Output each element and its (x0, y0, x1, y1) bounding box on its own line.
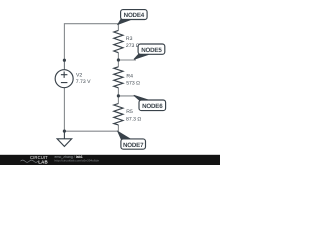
svg-text:LAB: LAB (38, 159, 48, 164)
footer logo wave (21, 160, 39, 162)
svg-text:NODE6: NODE6 (142, 103, 163, 110)
svg-text:7.73 V: 7.73 V (76, 79, 91, 85)
junction dot V2 top (63, 59, 66, 62)
wire bottom horizontal (64, 130, 118, 132)
svg-text:NODE7: NODE7 (123, 142, 144, 149)
svg-text:V2: V2 (76, 72, 82, 78)
node NODE7 flag (118, 132, 146, 150)
wire between R4 and R5 (117, 88, 119, 104)
resistor R3 (114, 30, 123, 52)
wire between R3 and R4 (117, 53, 119, 67)
junction dot node5 (117, 58, 120, 61)
resistor R5 (114, 104, 123, 125)
wire right vertical segment above R3 (117, 23, 119, 30)
wire V2 top pin (63, 60, 65, 69)
resistor R4 (114, 67, 123, 88)
footer bar (0, 155, 220, 165)
wire stub to NODE5 (118, 59, 136, 61)
wire left vertical (63, 23, 65, 60)
wire top horizontal (64, 23, 118, 25)
node NODE5 flag (134, 44, 165, 59)
svg-text:http://circuitlab.com/c6e394u6: http://circuitlab.com/c6e394u6de (55, 159, 100, 163)
wire stub to NODE6 (118, 95, 135, 97)
wire V2 bottom to ground junction (63, 88, 65, 131)
junction dot node6 (117, 94, 120, 97)
svg-text:87.3 Ω: 87.3 Ω (126, 116, 141, 122)
svg-text:R4: R4 (126, 74, 133, 80)
voltage source V2 (55, 70, 73, 88)
svg-text:NODE5: NODE5 (141, 47, 162, 54)
svg-text:R5: R5 (126, 109, 133, 115)
ground (57, 131, 72, 146)
node NODE4 flag (118, 10, 147, 25)
junction dot ground (63, 130, 66, 133)
wire below R5 (117, 125, 119, 131)
svg-text:R3: R3 (126, 36, 133, 42)
node NODE6 flag (134, 95, 166, 110)
svg-text:NODE4: NODE4 (124, 12, 145, 19)
svg-text:573 Ω: 573 Ω (126, 81, 140, 87)
